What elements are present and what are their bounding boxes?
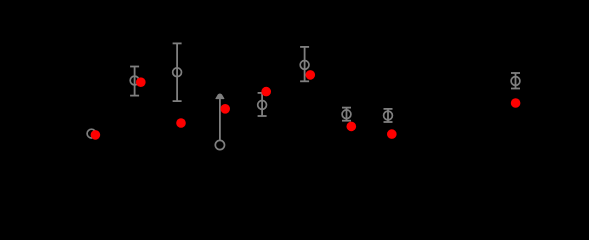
red point R8 — [387, 129, 397, 139]
errorbar G8 bottom cap — [384, 121, 393, 123]
errorbar G5 bottom cap — [258, 115, 267, 117]
errorbar G3 bar — [176, 43, 178, 101]
red point R3 — [176, 118, 186, 128]
red point R9 — [511, 98, 521, 108]
errorbar G3 bottom cap — [173, 100, 182, 102]
errorbar G6 bottom cap — [300, 80, 309, 82]
marker G1 open circle — [87, 129, 96, 138]
errorbar G2 bottom cap — [130, 95, 139, 97]
errorbar G7 top cap — [342, 107, 351, 109]
red point R2 — [136, 77, 146, 87]
errorbar G6 bar — [304, 47, 306, 81]
errorbar G9 top cap — [511, 72, 520, 74]
red point R6 — [306, 70, 316, 80]
red point R4 — [220, 104, 230, 114]
marker G7 open circle — [342, 110, 351, 119]
errorbar G9 bottom cap — [511, 88, 520, 90]
marker G5 open circle — [258, 101, 267, 110]
marker G8 open circle — [384, 111, 393, 120]
errorbar G5 top cap — [258, 92, 267, 94]
errorbar G2 top cap — [130, 66, 139, 68]
errorbar G8 bar — [387, 109, 389, 122]
errorbar G7 bottom cap — [342, 120, 351, 122]
marker G3 open circle — [173, 68, 182, 77]
red point R1 — [91, 130, 101, 140]
marker G2 open circle — [130, 76, 139, 85]
errorbar G7 bar — [346, 108, 348, 121]
errorbar G5 bar — [261, 93, 263, 116]
errorbar G2 bar — [134, 67, 136, 96]
errorbar G9 bar — [515, 73, 517, 89]
marker G4 open circle — [215, 140, 224, 149]
marker G9 open circle — [511, 77, 520, 86]
red point R5 — [261, 87, 271, 97]
arrowhead G4 (lower-limit caret) — [216, 94, 224, 99]
errorbar G3 top cap — [173, 42, 182, 44]
red point R7 — [347, 122, 357, 132]
errorbar G8 top cap — [384, 108, 393, 110]
errorbar G6 top cap — [300, 46, 309, 48]
marker G6 open circle — [300, 61, 309, 70]
errorbar G4 lower-limit bar — [219, 98, 221, 140]
